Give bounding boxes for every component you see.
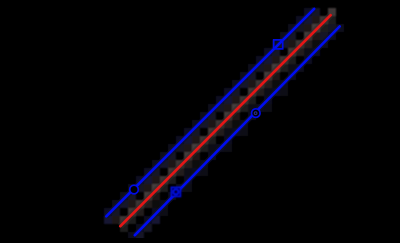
compression-artifact blocks along lines: [104, 8, 344, 240]
square+circle marker M3 on lower blue line: [171, 187, 180, 196]
glow under red line: [120, 15, 330, 226]
circle marker M1 on upper blue line: [130, 185, 139, 194]
faint inner smudge of marker M4: [254, 112, 257, 115]
upper blue line: [106, 9, 314, 217]
glow under lower blue line: [135, 26, 340, 235]
glow under upper blue line: [106, 9, 314, 217]
square marker M2 on upper blue line: [274, 40, 283, 49]
lower blue line: [135, 26, 340, 235]
red line: [120, 15, 330, 226]
circle marker M4 on lower blue line: [252, 109, 261, 118]
